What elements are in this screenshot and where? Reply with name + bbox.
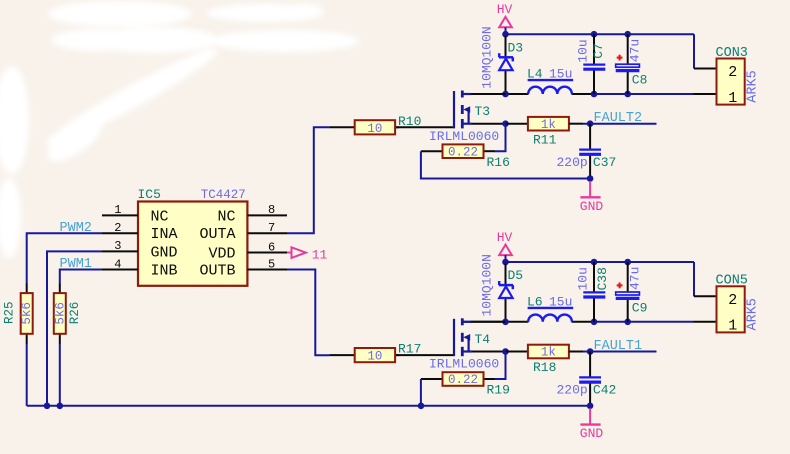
svg-text:IRLML0060: IRLML0060	[429, 129, 499, 144]
svg-text:C42: C42	[593, 383, 616, 398]
connector value ARK5	[745, 298, 760, 330]
svg-text:GND: GND	[580, 199, 604, 214]
connector CON5 pin 2 label	[728, 292, 737, 309]
capacitor C7 plates	[583, 65, 605, 70]
resistor R11 value 1k	[541, 118, 556, 132]
svg-text:47u: 47u	[627, 39, 642, 62]
resistor R19 value 0.22	[448, 373, 478, 387]
svg-text:3: 3	[114, 239, 121, 253]
IC5 pin number 7	[268, 221, 275, 235]
svg-text:15u: 15u	[549, 67, 572, 82]
transistor name T3	[475, 104, 491, 119]
junction local ground node	[587, 175, 594, 182]
junction switch rail / C filter 1	[591, 91, 598, 98]
svg-text:C9: C9	[632, 301, 648, 316]
svg-text:2: 2	[728, 64, 737, 81]
capacitor value 47u	[627, 39, 642, 62]
svg-text:T4: T4	[475, 332, 491, 347]
capacitor name C7	[591, 43, 606, 59]
svg-text:HV: HV	[497, 2, 513, 17]
IC5 pin name NC (pin 8)	[217, 208, 235, 225]
wire fault net	[569, 123, 657, 125]
IC5 pin name INB (pin 4)	[151, 263, 178, 280]
IC5 pin 3 stub	[102, 250, 138, 252]
junction HV rail / diode	[502, 259, 509, 266]
wire HV rail to CON3 pin 2	[694, 34, 717, 68]
svg-text:HV: HV	[497, 230, 513, 245]
capacitor C42 plates	[579, 377, 601, 382]
IC5 pin 5 stub	[247, 269, 287, 271]
svg-text:47u: 47u	[627, 267, 642, 290]
label net FAULT2	[594, 111, 643, 126]
power HV symbol (bottom)	[497, 230, 513, 262]
resistor R17 pins	[329, 354, 399, 356]
svg-text:10: 10	[367, 350, 382, 364]
IC5 pin name NC (pin 1)	[151, 208, 169, 225]
svg-text:OUTB: OUTB	[199, 263, 235, 280]
transistor T4 symbol	[454, 318, 472, 356]
capacitor C9 plates	[616, 292, 640, 298]
transistor name T4	[475, 332, 491, 347]
IC5 pin number 4	[114, 257, 121, 271]
junction switch rail / C filter 1	[591, 319, 598, 326]
svg-text:10u: 10u	[576, 39, 591, 62]
IC5 pin name VDD (pin 6)	[208, 246, 235, 263]
connector value ARK5	[745, 70, 760, 102]
transistor T3 symbol	[454, 91, 472, 129]
diode D5 zener symbol	[499, 281, 513, 298]
svg-text:R19: R19	[487, 383, 510, 398]
resistor R17 value 10	[367, 350, 382, 364]
junction source node	[502, 348, 509, 355]
diode name D3	[508, 40, 524, 55]
IC5 pin name INA (pin 2)	[151, 226, 178, 243]
junction HV rail / C filter 2	[624, 259, 631, 266]
wire R25 to ground rail	[26, 344, 28, 406]
connector name CON3	[716, 46, 748, 61]
capacitor name C38	[595, 267, 610, 290]
svg-text:IRLML0060: IRLML0060	[429, 357, 499, 372]
transistor value IRLML0060	[429, 357, 499, 372]
capacitor C7 pins	[593, 34, 595, 94]
svg-text:L6: L6	[527, 294, 543, 309]
resistor R10 value 10	[367, 122, 382, 136]
wire net PWM1	[60, 270, 102, 284]
IC5 name	[138, 187, 161, 202]
svg-text:TC4427: TC4427	[201, 188, 246, 202]
inductor name L4	[527, 67, 543, 82]
svg-text:4: 4	[114, 257, 121, 271]
diode name D5	[508, 268, 524, 283]
svg-text:C8: C8	[632, 73, 648, 88]
resistor R19 pins	[421, 378, 495, 380]
svg-text:0.22: 0.22	[448, 145, 478, 159]
resistor name R19	[487, 383, 510, 398]
capacitor value 10u	[576, 267, 591, 290]
IC5 pin number 6	[268, 240, 275, 254]
capacitor value 220p	[557, 383, 588, 398]
capacitor C37 plates	[579, 150, 601, 155]
inductor value 15u	[549, 67, 572, 82]
wire switch rail to CON5 pin 1	[694, 321, 717, 323]
inductor name L6	[527, 294, 543, 309]
svg-text:ARK5: ARK5	[745, 70, 760, 102]
IC5 pin 2 stub	[102, 232, 138, 234]
capacitor C9 polarity plus	[617, 283, 623, 289]
IC5 pin name OUTA (pin 7)	[199, 226, 235, 243]
svg-text:5k6: 5k6	[20, 302, 34, 325]
IC5 pin name GND (pin 3)	[151, 244, 178, 261]
resistor R26 pins	[59, 283, 61, 344]
svg-text:PWM2: PWM2	[60, 221, 92, 236]
junction source node	[502, 120, 509, 127]
svg-text:D3: D3	[508, 40, 524, 55]
capacitor C9 pins	[627, 262, 629, 322]
power HV symbol (top)	[497, 2, 513, 34]
wire HV rail	[506, 261, 695, 263]
junction switch rail / diode	[502, 319, 509, 326]
inductor value 15u	[549, 294, 572, 309]
IC5 pin number 8	[268, 203, 275, 217]
junction fault net / filter cap	[587, 120, 594, 127]
svg-text:GND: GND	[151, 244, 178, 261]
wire sense resistor to local ground	[421, 151, 590, 178]
svg-text:INB: INB	[151, 263, 178, 280]
svg-text:6: 6	[268, 240, 275, 254]
svg-text:INA: INA	[151, 226, 178, 243]
resistor R17 body	[355, 348, 395, 362]
diode value 10MQ100N	[480, 26, 495, 88]
svg-text:10: 10	[367, 122, 382, 136]
svg-text:VDD: VDD	[208, 246, 235, 263]
svg-text:CON3: CON3	[716, 46, 748, 61]
capacitor C8 plates	[616, 64, 640, 70]
label net PWM1	[60, 257, 92, 272]
capacitor name C42	[593, 383, 616, 398]
svg-text:R10: R10	[398, 114, 421, 129]
capacitor C8 polarity plus	[617, 55, 623, 61]
wire OUTA to R10	[287, 127, 329, 233]
label net FAULT1	[594, 339, 643, 354]
svg-text:5k6: 5k6	[53, 302, 67, 325]
svg-text:1k: 1k	[541, 118, 556, 132]
connector CON3 body	[717, 59, 745, 105]
wire switch rail to CON3 pin 1	[694, 93, 717, 95]
diode D5 pins	[505, 264, 507, 321]
svg-text:C38: C38	[595, 267, 610, 290]
ground GND symbol (top)	[580, 181, 604, 214]
junction HV rail / C filter 2	[624, 31, 631, 38]
resistor name R18	[533, 360, 556, 375]
capacitor name C9	[632, 301, 648, 316]
svg-text:2: 2	[728, 292, 737, 309]
wire source node to fault net	[506, 351, 528, 353]
diode D3 pins	[505, 36, 507, 93]
svg-text:5: 5	[268, 257, 275, 271]
wire source to sense node	[472, 123, 506, 125]
svg-text:R26: R26	[68, 302, 82, 325]
IC5 pin number 2	[114, 221, 121, 235]
wire drain to switch rail	[471, 93, 506, 95]
svg-text:NC: NC	[151, 208, 169, 225]
wire source node to sense resistor	[494, 124, 506, 152]
IC5 pin number 1	[114, 203, 121, 217]
svg-text:NC: NC	[217, 208, 235, 225]
net flag 11 label	[312, 247, 328, 262]
svg-text:1: 1	[728, 90, 737, 107]
capacitor C37 pins	[589, 124, 591, 179]
svg-text:10MQ100N: 10MQ100N	[480, 26, 495, 88]
ground GND symbol (bottom)	[580, 408, 604, 441]
resistor R19 body	[443, 372, 484, 386]
junction ground rail / R19	[418, 403, 425, 410]
junction HV rail / diode	[502, 31, 509, 38]
resistor name R16	[487, 155, 510, 170]
capacitor C42 pins	[589, 352, 591, 407]
resistor R10 pins	[329, 126, 399, 128]
junction fault net / filter cap	[587, 348, 594, 355]
svg-text:PWM1: PWM1	[60, 257, 92, 272]
svg-text:R11: R11	[533, 132, 557, 147]
junction HV rail / C filter 1	[591, 31, 598, 38]
svg-text:11: 11	[312, 247, 328, 262]
resistor R26 name	[68, 302, 82, 325]
wire fault net	[569, 351, 657, 353]
junction ground rail / C42	[587, 403, 594, 410]
resistor name R17	[398, 342, 421, 357]
svg-text:C37: C37	[593, 155, 616, 170]
connector CON5 body	[717, 286, 745, 332]
junction ground rail at R25-GND	[44, 403, 51, 410]
transistor T3 gate wire	[395, 126, 453, 128]
IC5 pin 7 stub	[247, 232, 287, 234]
wire source node to fault net	[506, 123, 528, 125]
inductor L6 symbol	[528, 308, 574, 322]
wire source to sense node	[472, 351, 506, 353]
resistor R16 value 0.22	[448, 145, 478, 159]
svg-text:10u: 10u	[576, 267, 591, 290]
svg-text:ARK5: ARK5	[745, 298, 760, 330]
IC5 pin number 3	[114, 239, 121, 253]
diode value 10MQ100N	[480, 254, 495, 316]
svg-text:1: 1	[728, 318, 737, 335]
capacitor name C8	[632, 73, 648, 88]
svg-text:R25: R25	[2, 302, 16, 325]
wire drain to switch rail	[471, 321, 506, 323]
IC5 pin 4 stub	[102, 269, 138, 271]
resistor name R10	[398, 114, 421, 129]
resistor R16 body	[443, 144, 484, 158]
capacitor C38 plates	[583, 292, 605, 297]
wire switch rail	[463, 93, 694, 95]
svg-text:FAULT2: FAULT2	[594, 111, 643, 126]
wire OUTB to R17	[287, 270, 329, 356]
svg-text:15u: 15u	[549, 294, 572, 309]
resistor R26 value 5k6	[53, 302, 67, 325]
capacitor value 220p	[557, 155, 588, 170]
svg-text:220p: 220p	[557, 155, 588, 170]
IC5 pin 6 stub	[247, 252, 287, 254]
connector CON3 pin 1 label	[728, 90, 737, 107]
inductor L4 symbol	[528, 80, 574, 94]
svg-text:0.22: 0.22	[448, 373, 478, 387]
resistor R25 body	[21, 293, 33, 334]
svg-text:T3: T3	[475, 104, 491, 119]
IC5 pin 8 stub	[247, 214, 287, 216]
svg-text:R16: R16	[487, 155, 510, 170]
svg-text:GND: GND	[580, 426, 604, 441]
wire sense resistor R19 to ground rail	[420, 379, 422, 406]
transistor T4 gate wire	[395, 354, 453, 356]
wire ground rail	[27, 405, 590, 407]
wire HV rail to CON5 pin 2	[694, 262, 717, 296]
resistor R25 name	[2, 302, 16, 325]
svg-text:220p: 220p	[557, 383, 588, 398]
svg-text:D5: D5	[508, 268, 524, 283]
wire source node to sense resistor	[494, 352, 506, 380]
wire HV rail	[506, 33, 695, 35]
svg-text:CON5: CON5	[716, 274, 748, 289]
wire net GND from IC pin3	[47, 251, 102, 405]
connector CON3 pin 2 label	[728, 64, 737, 81]
transistor value IRLML0060	[429, 129, 499, 144]
capacitor value 47u	[627, 267, 642, 290]
IC5 pin name OUTB (pin 5)	[199, 263, 235, 280]
wire net PWM2	[27, 233, 102, 283]
svg-text:1: 1	[114, 203, 121, 217]
svg-text:C7: C7	[591, 43, 606, 59]
capacitor value 10u	[576, 39, 591, 62]
connector name CON5	[716, 274, 748, 289]
resistor R11 body	[528, 117, 569, 131]
svg-text:R17: R17	[398, 342, 421, 357]
junction switch rail / C filter 2	[624, 319, 631, 326]
resistor R26 body	[54, 293, 66, 334]
capacitor C8 pins	[627, 34, 629, 94]
svg-text:10MQ100N: 10MQ100N	[480, 254, 495, 316]
resistor name R11	[533, 132, 557, 147]
svg-text:OUTA: OUTA	[199, 226, 235, 243]
connector CON5 pin 1 label	[728, 318, 737, 335]
svg-text:1k: 1k	[541, 346, 556, 360]
junction switch rail / C filter 2	[624, 91, 631, 98]
diode D3 zener symbol	[499, 53, 513, 70]
IC5 value TC4427	[201, 188, 246, 202]
resistor R10 body	[355, 120, 395, 134]
net flag 11 arrow	[287, 247, 306, 258]
capacitor C38 pins	[593, 262, 595, 322]
IC5 pin 1 stub	[102, 214, 138, 216]
svg-text:IC5: IC5	[138, 187, 161, 202]
svg-text:7: 7	[268, 221, 275, 235]
resistor R25 pins	[26, 283, 28, 344]
svg-text:8: 8	[268, 203, 275, 217]
junction HV rail / C filter 1	[591, 259, 598, 266]
resistor R18 body	[528, 345, 569, 359]
resistor R16 pins	[421, 150, 495, 152]
label net PWM2	[60, 221, 92, 236]
junction ground rail at R26	[57, 403, 64, 410]
capacitor name C37	[593, 155, 616, 170]
resistor R25 value 5k6	[20, 302, 34, 325]
svg-text:R18: R18	[533, 360, 556, 375]
svg-text:FAULT1: FAULT1	[594, 339, 643, 354]
wire R26 to ground rail	[59, 344, 61, 406]
svg-text:2: 2	[114, 221, 121, 235]
op-amp driver IC5 body	[138, 202, 247, 286]
wire switch rail	[463, 321, 694, 323]
svg-text:L4: L4	[527, 67, 543, 82]
junction switch rail / diode	[502, 91, 509, 98]
IC5 pin number 5	[268, 257, 275, 271]
resistor R18 value 1k	[541, 346, 556, 360]
